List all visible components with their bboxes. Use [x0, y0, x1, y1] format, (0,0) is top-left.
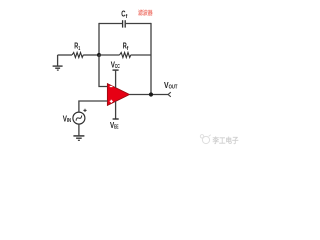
wire node A to Rf	[99, 54, 120, 56]
label VEE	[110, 120, 119, 130]
label VIN	[63, 114, 71, 124]
wire VIN to ground	[78, 124, 80, 135]
resistor Rf	[120, 53, 131, 58]
node A junction dot (inverting input node)	[97, 53, 101, 57]
VEE supply bar	[113, 101, 119, 119]
VCC supply bar	[113, 70, 119, 88]
wire capacitor to top-right corner	[126, 23, 151, 25]
wire ground to R1	[58, 54, 72, 56]
wire top-left horizontal to capacitor	[99, 23, 122, 25]
wire node A down to inverting input	[99, 55, 107, 87]
svg-text:1: 1	[78, 46, 80, 52]
svg-text:EE: EE	[114, 125, 119, 131]
ground (below VIN)	[73, 136, 84, 140]
wire left vertical of feedback loop	[98, 23, 100, 55]
wire R1 to node A	[83, 54, 99, 56]
output open terminal chevron	[168, 92, 171, 97]
wire Rf to right vertical	[131, 54, 151, 56]
svg-text:李工电子: 李工电子	[212, 136, 239, 145]
wire VIN to non-inverting input	[79, 101, 108, 112]
red annotation text	[138, 9, 153, 17]
wire op-amp output	[129, 94, 168, 96]
wire right vertical of feedback loop	[150, 23, 152, 95]
label Rf	[123, 42, 129, 52]
svg-text:f: f	[126, 14, 128, 20]
watermark text	[212, 136, 239, 145]
svg-text:f: f	[127, 46, 129, 52]
svg-text:CC: CC	[115, 64, 120, 70]
label VCC	[111, 60, 120, 71]
svg-text:IN: IN	[67, 118, 71, 124]
source VIN	[73, 109, 87, 124]
op-amp U1	[107, 84, 129, 106]
ground (left, input side)	[53, 55, 63, 70]
capacitor Cf	[123, 20, 126, 27]
svg-text:滤波器: 滤波器	[138, 9, 153, 17]
svg-text:OUT: OUT	[169, 85, 178, 91]
watermark logo	[200, 135, 211, 144]
label VOUT	[164, 80, 178, 91]
node output junction dot	[149, 92, 153, 96]
label R1	[74, 42, 80, 52]
resistor R1	[72, 53, 83, 58]
label Cf	[121, 9, 127, 20]
